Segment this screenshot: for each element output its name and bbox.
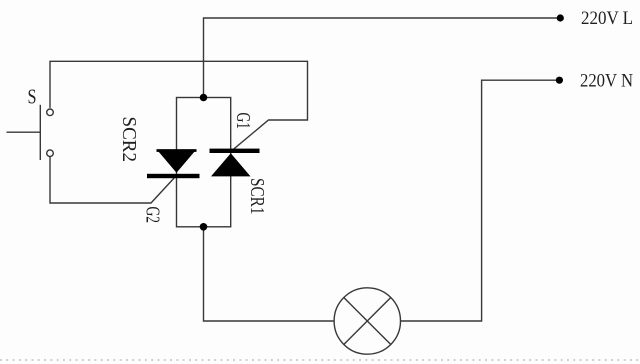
svg-text:SCR1: SCR1 <box>246 178 268 215</box>
svg-text:SCR2: SCR2 <box>118 117 140 163</box>
svg-text:G1: G1 <box>232 113 254 130</box>
svg-text:G2: G2 <box>142 207 164 224</box>
svg-text:220V L: 220V L <box>581 8 633 29</box>
svg-text:220V N: 220V N <box>580 70 633 91</box>
svg-text:S: S <box>28 85 37 109</box>
